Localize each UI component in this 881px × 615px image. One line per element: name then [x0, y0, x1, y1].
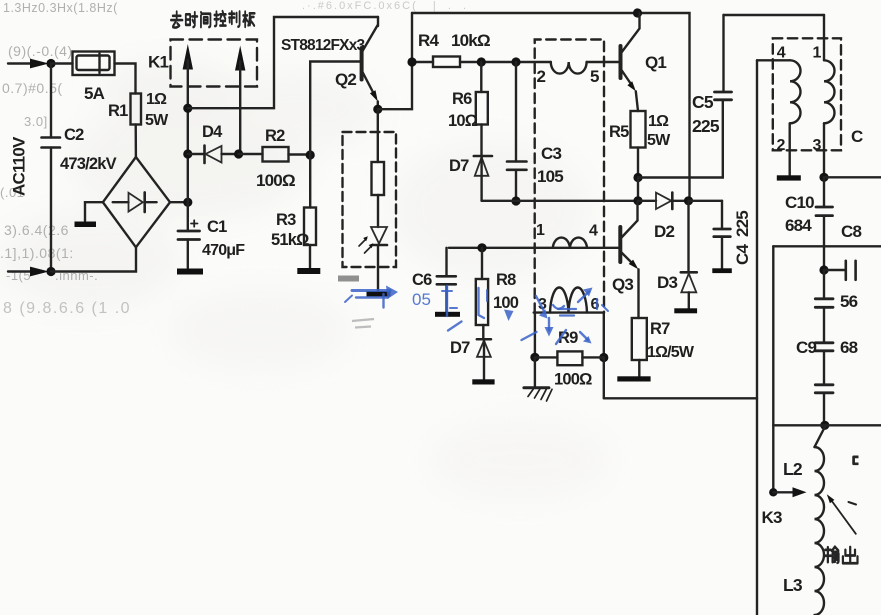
svg-text:.·.#6.0xFC.0x6C( | . .: .·.#6.0xFC.0x6C( | . . — [302, 0, 468, 12]
svg-text:3: 3 — [813, 137, 822, 154]
blue watermark slash over R9 — [556, 330, 566, 344]
svg-text:C3: C3 — [541, 144, 561, 163]
capacitor 56x — [815, 270, 833, 307]
ground bar (D7 second) — [472, 379, 494, 384]
node — [234, 149, 243, 158]
T1 winding pins 3-6 — [534, 287, 604, 312]
wire pin4 — [757, 59, 790, 61]
svg-text:470μF: 470μF — [202, 242, 245, 259]
capacitor C9 — [815, 307, 833, 351]
svg-text:.1],1).08(1:: .1],1).08(1: — [0, 245, 74, 261]
svg-text:3.0]: 3.0] — [24, 114, 48, 129]
wire common (lower) — [482, 200, 638, 202]
resistor R9 — [535, 351, 604, 365]
ground (hatched, R9 left) — [524, 357, 552, 401]
wire bridge right vertex to node — [170, 201, 188, 203]
svg-text:5A: 5A — [84, 84, 105, 103]
svg-text:2: 2 — [777, 137, 786, 154]
wire row y246 — [773, 245, 881, 247]
optocoupler internal resistor — [372, 162, 385, 195]
transistor Q1 — [621, 13, 640, 111]
relay K1 dashed box — [171, 40, 258, 87]
svg-text:225: 225 — [692, 116, 720, 136]
gray smudge strokes — [352, 319, 374, 328]
wire into optocoupler — [377, 109, 379, 162]
capacitor (third in stack) — [815, 351, 833, 426]
capacitor C8 (series) — [824, 261, 856, 280]
svg-text:2: 2 — [537, 67, 546, 86]
svg-text:R6: R6 — [452, 90, 472, 108]
blue watermark arrow at R9 right — [580, 332, 592, 344]
svg-text:C: C — [851, 127, 863, 146]
svg-text:C4 225: C4 225 — [733, 211, 752, 265]
main vertical bus — [187, 60, 189, 231]
capacitor C2 — [42, 138, 61, 148]
blue watermark stroke over C6 — [442, 286, 457, 316]
ground bar (D3) — [674, 308, 697, 313]
node — [407, 57, 416, 66]
capacitor C6 — [437, 248, 456, 312]
svg-text:5W: 5W — [647, 132, 671, 149]
resistor R7 — [632, 318, 647, 376]
svg-text:8 (9.8.6.6 (1 .0: 8 (9.8.6.6 (1 .0 — [3, 300, 131, 317]
svg-text:0.7)#0.5(: 0.7)#0.5( — [2, 80, 63, 96]
svg-text:1Ω/5W: 1Ω/5W — [647, 344, 695, 361]
node — [633, 8, 642, 17]
wire R5 node down — [637, 178, 639, 201]
svg-text:Q1: Q1 — [645, 53, 666, 72]
top rail (middle) — [412, 13, 690, 201]
label: to time control board (Chinese) — [171, 11, 255, 27]
wire bottom to bridge — [51, 247, 136, 271]
svg-text:R7: R7 — [650, 320, 670, 338]
svg-text:AC110V: AC110V — [10, 136, 29, 196]
capacitor C10 — [816, 177, 833, 270]
capacitor C3 — [507, 62, 527, 201]
optocoupler LED — [359, 227, 387, 253]
svg-text:C1: C1 — [207, 218, 227, 236]
wire emitter to R4 riser — [378, 13, 412, 109]
blue watermark slash — [522, 332, 537, 340]
label output (Chinese) — [825, 547, 858, 564]
wire to C4 — [689, 200, 723, 202]
wire R1 to bridge — [134, 125, 137, 158]
svg-text:1Ω: 1Ω — [648, 113, 669, 130]
resistor R2 — [239, 147, 311, 162]
K1 arrow right (up) — [235, 46, 245, 71]
svg-text:ST8812FXx3: ST8812FXx3 — [281, 37, 366, 54]
wire row pins 1-4 — [449, 247, 619, 249]
svg-text:K1: K1 — [148, 53, 168, 72]
input terminal arrow (top line) — [8, 62, 31, 64]
node — [530, 353, 539, 362]
vertical wire to K3 — [772, 246, 774, 492]
svg-text:100Ω: 100Ω — [256, 171, 295, 190]
node — [633, 173, 642, 182]
tap K3 with arrow — [769, 487, 806, 497]
resistor R1 — [131, 94, 142, 125]
wire to C5 — [638, 100, 723, 178]
input terminal arrow (bottom line) — [8, 270, 31, 272]
C1 electrolytic — [178, 220, 200, 268]
small dash mark — [849, 502, 857, 505]
blue watermark arrow onto pin3 — [536, 296, 548, 319]
node — [511, 57, 520, 66]
wire — [51, 62, 73, 64]
resistor R5 — [631, 111, 646, 178]
output winding L2/L3 — [815, 427, 825, 615]
svg-text:5W: 5W — [145, 112, 169, 129]
capacitor C4 — [714, 201, 731, 268]
svg-text:R1: R1 — [108, 102, 128, 120]
svg-text:R2: R2 — [265, 127, 285, 145]
paper mottling — [0, 60, 610, 500]
ground (bridge) — [75, 222, 97, 228]
wire K1 right arrow down — [239, 62, 241, 155]
svg-text:.innm-.: .innm-. — [55, 268, 98, 283]
node — [183, 104, 192, 113]
node: top input junction — [46, 59, 55, 68]
svg-text:K3: K3 — [762, 508, 782, 527]
wire pin6 lead down — [603, 313, 605, 358]
svg-text:C5: C5 — [692, 92, 714, 112]
svg-text:684: 684 — [785, 216, 812, 235]
svg-text:R8: R8 — [496, 271, 516, 289]
ground bar (R7) — [617, 376, 650, 381]
svg-text:D2: D2 — [654, 222, 674, 241]
node — [819, 173, 828, 182]
blue watermark arrow down — [545, 318, 554, 337]
blue watermark strokes (over opto ground) — [345, 286, 398, 308]
optocoupler dashed box — [343, 132, 397, 267]
svg-text:3).6.4(2.6: 3).6.4(2.6 — [4, 222, 69, 238]
wire pin3 lead down — [534, 313, 536, 358]
blue watermark arrowhead — [504, 310, 514, 322]
ground bar (pin2) — [777, 175, 801, 180]
svg-text:10Ω: 10Ω — [448, 112, 478, 130]
wire R9 right to bottom rail — [603, 358, 605, 399]
partial Chinese char (clipped) — [854, 453, 867, 470]
svg-text:D4: D4 — [202, 123, 223, 141]
node — [511, 196, 520, 205]
blue watermark ticks near pin6 — [597, 299, 608, 311]
wire bridge left vertex to ground — [85, 202, 103, 221]
svg-text:C6: C6 — [412, 271, 432, 289]
svg-text:56: 56 — [840, 292, 858, 311]
svg-text:4: 4 — [777, 45, 786, 62]
svg-text:1Ω: 1Ω — [146, 91, 167, 108]
svg-text:C8: C8 — [841, 222, 861, 241]
svg-text:68: 68 — [840, 338, 858, 357]
ground bar (C6) — [435, 312, 460, 317]
transformer T1 dashed box — [535, 40, 604, 314]
node — [477, 57, 486, 66]
blue watermark slash — [448, 322, 462, 331]
wire — [377, 195, 379, 227]
capacitor C5 — [715, 15, 732, 100]
ground (R3) — [297, 268, 320, 274]
svg-text:D7: D7 — [449, 157, 469, 175]
svg-text:6: 6 — [591, 296, 600, 313]
K1 arrow left (up) — [183, 44, 193, 70]
diode D7 (first) — [474, 156, 492, 201]
svg-text:-1(5: -1(5 — [6, 268, 31, 283]
svg-text:C2: C2 — [64, 126, 84, 144]
wire node to Q2 collector riser — [188, 17, 378, 108]
svg-text:100Ω: 100Ω — [554, 371, 592, 389]
blue watermark strokes over R8 — [479, 288, 488, 318]
svg-text:R4: R4 — [418, 31, 439, 50]
svg-text:C9: C9 — [796, 338, 816, 357]
svg-text:D3: D3 — [657, 273, 677, 292]
ground (optocoupler) — [367, 291, 391, 297]
svg-text:L3: L3 — [783, 575, 803, 595]
wire LED to ground — [377, 245, 379, 291]
wire fuse to R1 — [115, 64, 136, 94]
transistor Q2 — [310, 17, 378, 155]
annotation arrow to winding — [827, 494, 856, 534]
node: bottom input junction — [46, 267, 55, 276]
svg-text:L2: L2 — [783, 459, 803, 479]
node — [684, 196, 693, 205]
svg-text:1: 1 — [536, 222, 545, 239]
diode D2 — [638, 193, 689, 209]
node — [477, 243, 486, 252]
wire pin2 lead — [789, 123, 791, 175]
T1 winding pins 1-4 — [553, 238, 587, 248]
T2 right winding (pins 1-3) — [824, 15, 835, 177]
svg-text:Q2: Q2 — [335, 70, 356, 89]
bridge rectifier — [103, 157, 170, 247]
wire winding to Q1 base — [587, 61, 619, 63]
diode D4 — [188, 146, 239, 164]
vertical return bus — [756, 60, 758, 615]
node — [819, 265, 828, 274]
blue watermark strokes over winding — [553, 288, 593, 316]
transformer T2 dashed box — [773, 38, 841, 150]
svg-text:R3: R3 — [276, 211, 296, 229]
resistor R3 — [304, 155, 316, 268]
svg-text:R5: R5 — [609, 123, 629, 141]
diode D3 — [681, 201, 697, 308]
wire right — [824, 176, 881, 178]
diode D7 (second) — [477, 339, 491, 379]
svg-text:51kΩ: 51kΩ — [271, 231, 309, 249]
resistor R4 — [412, 57, 551, 68]
transistor Q3 — [620, 201, 638, 318]
svg-text:10kΩ: 10kΩ — [451, 31, 490, 50]
node Q2 emitter — [373, 105, 382, 114]
top rail (right) — [724, 14, 825, 16]
fuse 5A — [73, 52, 115, 76]
node — [599, 353, 608, 362]
T2 left winding (pins 4-2) — [790, 60, 801, 123]
svg-text:100: 100 — [493, 294, 519, 312]
svg-text:5: 5 — [590, 67, 599, 86]
bottom rail — [604, 397, 757, 399]
resistor R8 — [476, 248, 488, 339]
svg-text:(9)(.-0.(4): (9)(.-0.(4) — [8, 43, 73, 59]
node — [183, 149, 192, 158]
svg-text:Q3: Q3 — [612, 275, 633, 294]
node — [306, 150, 315, 159]
T1 winding pins 2-5 — [551, 62, 587, 74]
svg-text:4: 4 — [589, 223, 598, 240]
svg-text:1.3Hz0.3Hx(1.8Hz(: 1.3Hz0.3Hx(1.8Hz( — [3, 1, 118, 15]
node — [633, 196, 642, 205]
ground bar (C4) — [712, 268, 732, 273]
gray smudge bar — [338, 276, 359, 282]
svg-text:05: 05 — [412, 290, 431, 309]
svg-text:473/2kV: 473/2kV — [60, 155, 117, 173]
svg-text:105: 105 — [537, 167, 563, 186]
ground (C1) — [177, 269, 203, 275]
svg-text:C10: C10 — [785, 193, 814, 212]
svg-text:1: 1 — [813, 45, 822, 62]
node: rectifier output — [183, 198, 192, 207]
resistor R6 — [476, 62, 488, 156]
wire row y425 — [773, 424, 881, 426]
svg-text:D7: D7 — [450, 339, 470, 357]
node — [820, 421, 829, 430]
left column wire with C2 — [50, 64, 52, 272]
